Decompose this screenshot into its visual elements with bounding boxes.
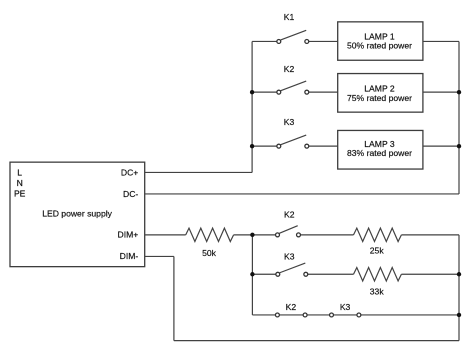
wire LAMP 2 to right bus	[423, 91, 459, 93]
wire DIM K3 row from bus	[252, 273, 275, 275]
svg-text:50% rated power: 50% rated power	[347, 41, 412, 51]
svg-text:75% rated power: 75% rated power	[347, 93, 412, 103]
svg-text:25k: 25k	[370, 246, 385, 256]
junction dot DIM right bus 33k	[457, 272, 461, 276]
svg-text:PE: PE	[14, 188, 26, 198]
wire K3 switch to LAMP 3	[309, 145, 338, 147]
wire bottom series row	[252, 314, 459, 316]
resistor R1 50k	[186, 228, 234, 241]
lamp box LAMP 3	[338, 130, 423, 169]
svg-text:DC-: DC-	[123, 189, 138, 199]
switch K3 contacts	[277, 144, 281, 148]
wire K2 switch to LAMP 2	[309, 91, 338, 93]
resistor R2 25k	[354, 228, 402, 241]
junction dot left bus K2	[250, 90, 254, 94]
junction dot right bus LAMP2	[457, 90, 461, 94]
wire DIM- vertical	[173, 256, 175, 340]
svg-text:83% rated power: 83% rated power	[347, 148, 412, 158]
wire resistor 33k to right bus	[401, 273, 459, 275]
wire K3 row from bus to switch	[252, 145, 277, 147]
svg-text:LED power supply: LED power supply	[42, 208, 112, 218]
svg-text:DIM-: DIM-	[120, 251, 139, 261]
svg-text:50k: 50k	[202, 248, 217, 258]
lamp box LAMP 2	[338, 74, 423, 113]
svg-text:L: L	[17, 168, 22, 178]
wire LAMP 1 to right bus	[423, 40, 459, 42]
resistor R3 33k	[354, 268, 402, 281]
switch K1 contacts	[277, 40, 281, 44]
wire K1 switch to LAMP 1	[309, 40, 338, 42]
wire DIM- to box	[145, 255, 174, 257]
switch K1 blade	[281, 30, 307, 40]
wire DIM+ to resistor	[145, 234, 186, 236]
power supply box U1 LED power supply	[10, 162, 145, 267]
wire K1 row from bus to switch	[252, 40, 277, 42]
svg-text:DIM+: DIM+	[118, 230, 139, 240]
wire DIM junction bus vertical	[251, 235, 253, 315]
switch bottom K2 contacts (closed)	[275, 313, 279, 317]
svg-text:N: N	[17, 178, 23, 188]
svg-text:K2: K2	[284, 64, 295, 74]
switch K3 blade	[281, 135, 307, 145]
svg-text:K2: K2	[284, 210, 295, 220]
svg-text:K3: K3	[284, 252, 295, 262]
junction dot right bus LAMP3	[457, 144, 461, 148]
wire DC+ horizontal	[145, 171, 252, 173]
wire right bus vertical to DC-	[458, 41, 460, 194]
wire DIM K2 switch to resistor 25k	[301, 234, 354, 236]
junction dot left bus K3	[250, 144, 254, 148]
wire left bus vertical DC+ to K1	[251, 41, 253, 172]
svg-text:K3: K3	[340, 302, 351, 312]
junction dot DIM K3 bus	[250, 272, 254, 276]
svg-text:K1: K1	[284, 12, 295, 22]
junction dot DIM+ bus	[250, 233, 254, 237]
svg-text:33k: 33k	[370, 287, 385, 297]
switch DIM K2 blade	[279, 226, 297, 234]
wire resistor 50k to junction and K2	[234, 234, 276, 236]
switch DIM K2 contacts	[276, 233, 280, 237]
wire K2 row from bus to switch	[252, 91, 277, 93]
wire DIM K3 switch to resistor 33k	[308, 273, 354, 275]
switch K2 blade	[281, 81, 307, 91]
wire DIM right bus vertical	[458, 235, 460, 341]
switch DIM K3 blade	[280, 263, 306, 273]
svg-text:DC+: DC+	[121, 168, 138, 178]
wire LAMP 3 to right bus	[423, 145, 459, 147]
junction dot DIM right bus bottom	[457, 313, 461, 317]
svg-text:K3: K3	[284, 117, 295, 127]
switch DIM K3 contacts	[276, 272, 280, 276]
wire resistor 25k to right bus	[401, 234, 459, 236]
lamp box LAMP 1	[338, 22, 423, 60]
wire DIM return bottom	[174, 340, 459, 342]
svg-text:K2: K2	[286, 302, 297, 312]
switch bottom K3 contacts (closed)	[330, 313, 334, 317]
wire DC- horizontal	[145, 193, 459, 195]
switch K2 contacts	[277, 90, 281, 94]
